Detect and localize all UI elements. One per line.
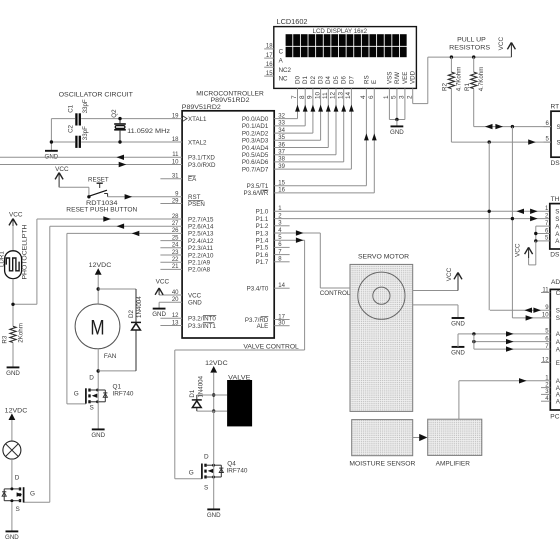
svg-text:PSEN: PSEN — [188, 201, 205, 208]
svg-text:P1.6: P1.6 — [256, 252, 269, 259]
svg-text:VCC: VCC — [446, 267, 453, 281]
svg-text:1N4004: 1N4004 — [136, 296, 143, 318]
svg-text:P3.4/T0: P3.4/T0 — [247, 286, 269, 293]
svg-text:12VDC: 12VDC — [89, 262, 112, 269]
svg-text:12VDC: 12VDC — [205, 360, 228, 367]
svg-text:A: A — [555, 231, 560, 238]
svg-text:GND: GND — [188, 300, 202, 307]
svg-text:P2.0/A8: P2.0/A8 — [188, 267, 211, 274]
svg-text:P3.0/RXD: P3.0/RXD — [188, 162, 216, 169]
svg-text:P1.7: P1.7 — [256, 259, 269, 266]
svg-text:P0.7/AD7: P0.7/AD7 — [242, 166, 269, 173]
svg-text:4.7Kohm: 4.7Kohm — [456, 67, 463, 92]
svg-text:1N4004: 1N4004 — [198, 375, 205, 397]
svg-text:E: E — [556, 360, 560, 367]
svg-text:A: A — [556, 331, 560, 338]
svg-text:LDR1: LDR1 — [0, 251, 6, 267]
svg-text:30: 30 — [278, 321, 285, 327]
svg-text:P3.5/T1: P3.5/T1 — [247, 183, 269, 190]
svg-text:22: 22 — [172, 257, 179, 263]
svg-text:PHOTOCELLPTH: PHOTOCELLPTH — [22, 225, 29, 280]
svg-text:P2.4/A12: P2.4/A12 — [188, 238, 214, 245]
svg-text:P0.0/AD0: P0.0/AD0 — [242, 116, 269, 123]
svg-text:VDD: VDD — [410, 70, 417, 84]
svg-text:VCC: VCC — [188, 292, 202, 299]
svg-text:S: S — [16, 506, 20, 513]
svg-text:P3.2/INT0: P3.2/INT0 — [188, 316, 216, 323]
svg-text:CONTROL: CONTROL — [320, 290, 351, 297]
svg-text:GND: GND — [91, 432, 105, 439]
svg-text:PC: PC — [550, 414, 559, 421]
svg-text:29: 29 — [172, 198, 179, 204]
svg-text:13: 13 — [172, 320, 179, 326]
svg-text:S: S — [556, 315, 560, 322]
svg-text:E: E — [371, 80, 378, 84]
svg-text:MOISTURE SENSOR: MOISTURE SENSOR — [349, 460, 415, 467]
svg-text:FAN: FAN — [104, 353, 117, 360]
svg-text:GND: GND — [390, 129, 404, 136]
svg-text:R/W: R/W — [394, 72, 401, 84]
svg-text:23: 23 — [172, 250, 179, 256]
svg-text:OSCILLATOR CIRCUIT: OSCILLATOR CIRCUIT — [59, 92, 133, 99]
svg-text:D: D — [15, 474, 20, 481]
svg-text:GND: GND — [451, 350, 465, 357]
svg-text:GND: GND — [451, 321, 465, 328]
svg-text:M: M — [90, 315, 104, 339]
svg-text:AMPLIFIER: AMPLIFIER — [436, 460, 471, 467]
svg-text:G: G — [74, 391, 79, 398]
svg-text:D3: D3 — [318, 76, 325, 84]
svg-text:18: 18 — [266, 44, 273, 50]
svg-text:A: A — [556, 399, 560, 406]
svg-text:17: 17 — [266, 53, 273, 59]
svg-text:D7: D7 — [348, 76, 355, 84]
svg-text:S: S — [556, 308, 560, 315]
svg-text:33pF: 33pF — [82, 126, 89, 140]
svg-text:G: G — [189, 470, 194, 477]
svg-text:EA: EA — [188, 176, 197, 183]
svg-text:P1.4: P1.4 — [256, 238, 269, 245]
svg-text:VCC: VCC — [514, 243, 521, 257]
svg-text:S: S — [555, 216, 559, 223]
svg-text:P89V51RD2: P89V51RD2 — [211, 97, 250, 104]
svg-text:P1.2: P1.2 — [256, 223, 269, 230]
svg-text:P2.3/A11: P2.3/A11 — [188, 245, 214, 252]
svg-text:Q2: Q2 — [111, 109, 118, 118]
svg-text:P0.1/AD1: P0.1/AD1 — [242, 123, 269, 130]
svg-text:S: S — [557, 124, 560, 131]
svg-text:15: 15 — [266, 71, 273, 77]
svg-text:D2: D2 — [310, 76, 317, 84]
svg-text:P1.0: P1.0 — [256, 209, 269, 216]
svg-text:31: 31 — [172, 174, 179, 180]
svg-text:ALE: ALE — [257, 323, 269, 330]
svg-text:A: A — [555, 223, 560, 230]
svg-text:VCC: VCC — [498, 37, 505, 51]
svg-text:A: A — [555, 238, 560, 245]
svg-text:SERVO MOTOR: SERVO MOTOR — [358, 254, 409, 261]
svg-text:C1: C1 — [67, 104, 74, 112]
svg-text:14: 14 — [278, 283, 285, 289]
svg-text:17: 17 — [278, 314, 285, 320]
svg-text:S: S — [204, 484, 208, 491]
svg-text:12: 12 — [172, 313, 179, 319]
svg-text:LCD1602: LCD1602 — [277, 19, 308, 26]
svg-text:R3: R3 — [2, 335, 9, 343]
svg-text:D: D — [89, 374, 94, 381]
svg-text:NC: NC — [279, 76, 288, 83]
svg-text:Q1: Q1 — [113, 384, 122, 391]
svg-text:12VDC: 12VDC — [5, 407, 28, 414]
svg-text:DS: DS — [551, 160, 560, 167]
svg-text:P0.6/AD6: P0.6/AD6 — [242, 159, 269, 166]
svg-text:C: C — [279, 49, 284, 56]
svg-text:R1: R1 — [464, 83, 471, 91]
svg-text:D0: D0 — [294, 76, 301, 84]
svg-text:VCC: VCC — [55, 166, 69, 173]
svg-text:VCC: VCC — [156, 279, 170, 286]
svg-text:S: S — [555, 209, 559, 216]
svg-text:G: G — [30, 490, 35, 497]
svg-text:IRF740: IRF740 — [113, 391, 134, 398]
svg-text:24: 24 — [172, 243, 179, 249]
svg-text:11.0592 MHz: 11.0592 MHz — [127, 128, 170, 135]
svg-text:P2.6/A14: P2.6/A14 — [188, 224, 214, 231]
svg-text:C: C — [556, 290, 560, 297]
svg-text:GND: GND — [152, 311, 166, 318]
svg-text:P89V51RD2: P89V51RD2 — [182, 104, 221, 111]
svg-text:A: A — [556, 339, 560, 346]
svg-text:PULL UP: PULL UP — [457, 37, 486, 44]
svg-text:P0.5/AD5: P0.5/AD5 — [242, 152, 269, 159]
svg-text:P0.3/AD3: P0.3/AD3 — [242, 138, 269, 145]
svg-text:4.7Kohm: 4.7Kohm — [478, 67, 485, 92]
svg-text:D2: D2 — [128, 310, 135, 318]
svg-text:33pF: 33pF — [82, 99, 89, 113]
svg-text:GND: GND — [6, 370, 20, 377]
svg-text:RT: RT — [551, 104, 560, 111]
svg-text:AD: AD — [551, 279, 560, 286]
svg-text:R2: R2 — [442, 83, 449, 91]
svg-text:D6: D6 — [341, 76, 348, 84]
svg-text:NC2: NC2 — [279, 67, 292, 74]
svg-text:S: S — [557, 139, 560, 146]
svg-text:P2.2/A10: P2.2/A10 — [188, 252, 214, 259]
svg-text:IRF740: IRF740 — [227, 468, 248, 475]
svg-text:VCC: VCC — [9, 212, 23, 219]
svg-text:RESET: RESET — [88, 177, 109, 184]
svg-text:P1.5: P1.5 — [256, 245, 269, 252]
svg-text:D: D — [204, 453, 209, 460]
svg-text:GND: GND — [5, 534, 19, 541]
svg-text:P3.6/WR: P3.6/WR — [244, 190, 269, 197]
svg-text:C2: C2 — [67, 124, 74, 132]
svg-text:S: S — [90, 405, 94, 412]
svg-text:TH: TH — [551, 196, 560, 203]
svg-text:VSS: VSS — [386, 72, 393, 84]
svg-text:P1.1: P1.1 — [256, 216, 269, 223]
svg-text:P2.7/A15: P2.7/A15 — [188, 216, 214, 223]
svg-text:25: 25 — [172, 235, 179, 241]
svg-text:RESET PUSH BUTTON: RESET PUSH BUTTON — [66, 206, 137, 213]
svg-text:P0.4/AD4: P0.4/AD4 — [242, 145, 269, 152]
svg-text:D1: D1 — [189, 389, 196, 397]
svg-text:RS: RS — [363, 75, 370, 84]
svg-text:21: 21 — [172, 264, 179, 270]
svg-text:P3.1/TXD: P3.1/TXD — [188, 155, 215, 162]
svg-text:2Kohm: 2Kohm — [18, 323, 25, 343]
svg-text:XTAL1: XTAL1 — [188, 116, 207, 123]
svg-text:A: A — [556, 346, 560, 353]
svg-text:P2.5/A13: P2.5/A13 — [188, 231, 214, 238]
svg-text:D5: D5 — [333, 76, 340, 84]
svg-text:DS: DS — [550, 252, 560, 259]
svg-text:P2.1/A9: P2.1/A9 — [188, 260, 211, 267]
svg-text:GND: GND — [207, 512, 221, 519]
svg-text:Q4: Q4 — [227, 461, 236, 468]
svg-text:D1: D1 — [302, 76, 309, 84]
svg-text:VEE: VEE — [402, 72, 409, 84]
svg-text:XTAL2: XTAL2 — [188, 139, 207, 146]
svg-text:P0.2/AD2: P0.2/AD2 — [242, 130, 269, 137]
svg-text:16: 16 — [266, 62, 273, 68]
svg-text:P1.3: P1.3 — [256, 230, 269, 237]
svg-text:D4: D4 — [325, 76, 332, 84]
svg-text:RESISTORS: RESISTORS — [449, 44, 490, 51]
svg-text:P3.3/INT1: P3.3/INT1 — [188, 323, 216, 330]
